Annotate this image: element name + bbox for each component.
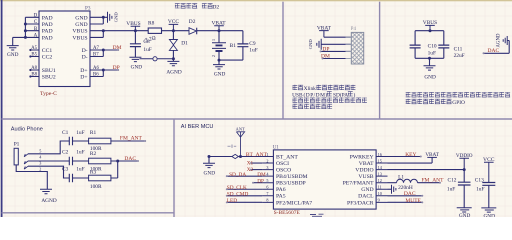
ground GND under C10 C11 xyxy=(424,66,437,81)
svg-text:C1: C1 xyxy=(62,130,69,136)
svg-text:15: 15 xyxy=(378,158,382,163)
svg-text:B1: B1 xyxy=(230,43,237,49)
svg-text:1uF: 1uF xyxy=(76,166,84,172)
svg-text:1uF: 1uF xyxy=(428,50,436,56)
wire P1 pin5 to C1 xyxy=(28,141,69,154)
svg-text:D-: D- xyxy=(82,48,88,54)
svg-text:Type-C: Type-C xyxy=(40,91,57,97)
svg-text:DACL: DACL xyxy=(358,194,374,200)
svg-text:B8: B8 xyxy=(31,73,37,78)
ground GND (rotated, right of P3) xyxy=(108,12,119,23)
svg-text:AI BER MCU: AI BER MCU xyxy=(181,124,214,130)
svg-text:GND: GND xyxy=(131,65,143,71)
svg-text:PAD: PAD xyxy=(42,22,53,28)
capacitor C8 1uF xyxy=(130,31,152,58)
svg-text:C9: C9 xyxy=(249,41,256,47)
capacitor C12 1uF xyxy=(447,170,471,208)
svg-text:VUSB: VUSB xyxy=(358,174,373,180)
svg-text:R8: R8 xyxy=(148,21,155,27)
net label X1 stub xyxy=(247,160,262,166)
svg-text:U1: U1 xyxy=(273,145,280,150)
svg-text:2: 2 xyxy=(266,158,268,163)
svg-text:1uF: 1uF xyxy=(249,47,257,53)
svg-text:(DP/DM): (DP/DM) xyxy=(304,91,328,98)
wire net-tie GND to AGND with circle xyxy=(140,57,174,61)
power port VBAT (pin15) xyxy=(388,152,440,163)
wire VBUS pins of P3 to rail xyxy=(90,31,135,38)
svg-text:C10: C10 xyxy=(428,44,437,50)
svg-text:VBUS: VBUS xyxy=(72,29,87,35)
svg-text:PAD: PAD xyxy=(42,29,53,35)
P3 pin names CC1 CC2 xyxy=(42,48,53,61)
wire P1 pin3 to C3 xyxy=(28,166,69,178)
ferrite bead (diamond) xyxy=(232,154,239,158)
svg-text:C3: C3 xyxy=(62,166,69,172)
ground AGND under D1 xyxy=(166,59,181,76)
bead designator marks xyxy=(228,145,237,148)
svg-text:R2: R2 xyxy=(90,151,97,157)
svg-text:1uF: 1uF xyxy=(143,47,151,53)
connector P3 Type-C body xyxy=(39,11,90,87)
note: battery power isolation annotation xyxy=(406,92,510,106)
power port VBAT (P4) xyxy=(317,25,332,37)
svg-text:7: 7 xyxy=(266,191,268,196)
svg-text:A7: A7 xyxy=(93,46,99,51)
svg-text:11: 11 xyxy=(378,185,382,190)
net label MUTE wire (pin9) xyxy=(388,198,424,204)
ground GND (left of P3) xyxy=(7,46,19,59)
note: battery removal annotation 有电池时 去掉D2 xyxy=(175,3,220,10)
svg-text:LED: LED xyxy=(227,198,237,204)
svg-text:2: 2 xyxy=(39,167,41,172)
capacitor C10 1uF xyxy=(410,44,437,57)
svg-text:SD_CLK: SD_CLK xyxy=(227,185,247,191)
IC U1 body xyxy=(273,150,376,209)
section divider vertical x=379.6 xyxy=(379,2,381,119)
net label DP wire xyxy=(252,178,264,184)
svg-text:X1: X1 xyxy=(247,160,254,166)
svg-text:DAC: DAC xyxy=(404,191,416,197)
svg-text:5: 5 xyxy=(266,178,268,183)
svg-text:Audio Phone: Audio Phone xyxy=(11,126,43,132)
ground AGND (audio) xyxy=(40,189,57,204)
battery B1 xyxy=(211,31,236,60)
net labels SD_DA / DM wire xyxy=(226,172,266,178)
svg-text:S-BE5607E: S-BE5607E xyxy=(274,210,301,216)
svg-text:10: 10 xyxy=(378,191,382,196)
net label FM_ANT wire xyxy=(111,136,146,142)
net label DM (P4) xyxy=(321,54,351,60)
svg-text:PAD: PAD xyxy=(42,35,53,41)
svg-text:FM_ANT: FM_ANT xyxy=(120,136,143,142)
svg-text:Xlink: Xlink xyxy=(304,86,317,92)
svg-text:1uF: 1uF xyxy=(476,186,484,192)
svg-text:22uF: 22uF xyxy=(454,53,465,59)
svg-text:C11: C11 xyxy=(454,47,463,53)
junction dots on PAD bus xyxy=(24,23,27,39)
svg-text:PB3/USBDP: PB3/USBDP xyxy=(276,181,306,187)
cropped text marks at bottom edge xyxy=(310,214,324,216)
wire VBUS rail to VCC to D2 to VBAT xyxy=(135,30,243,32)
section divider vertical x=283 xyxy=(282,2,284,119)
svg-text:VDDIO: VDDIO xyxy=(355,168,373,174)
svg-text:GND: GND xyxy=(75,22,87,28)
svg-text:DM: DM xyxy=(113,45,122,51)
top sheet border xyxy=(0,0,512,1)
wire C10 C11 loop xyxy=(415,31,444,66)
svg-text:BT_ANT: BT_ANT xyxy=(276,154,298,160)
wire GND pins of P3 xyxy=(90,17,108,24)
svg-text:C12: C12 xyxy=(448,178,457,184)
svg-text:DP: DP xyxy=(113,65,120,71)
svg-text:9: 9 xyxy=(378,198,380,203)
svg-text:GND: GND xyxy=(424,74,436,80)
svg-text:B5: B5 xyxy=(31,53,37,58)
antenna ANT xyxy=(236,127,245,157)
svg-text:B7: B7 xyxy=(93,53,99,58)
svg-text:D2: D2 xyxy=(212,5,219,11)
svg-text:GND: GND xyxy=(7,52,19,58)
capacitor C2 1uF xyxy=(62,150,85,166)
svg-text:16: 16 xyxy=(378,152,382,157)
power port VDDIO wire (pin14) xyxy=(388,153,473,171)
left sheet border xyxy=(1,0,3,217)
svg-text:A8: A8 xyxy=(31,66,37,71)
ground GND under battery xyxy=(213,60,226,77)
wire VBAT to P4 pin1 xyxy=(324,36,351,38)
svg-text:GND: GND xyxy=(75,15,87,21)
wire C1-R1, C2-R2, C3-R3 xyxy=(73,141,89,178)
net label DAC wire with R3 join xyxy=(111,156,139,178)
svg-text:GND: GND xyxy=(204,170,216,176)
svg-text:A5: A5 xyxy=(31,46,37,51)
pin A8 B8 stubs SBU1 SBU2 xyxy=(29,66,39,78)
svg-text:GND: GND xyxy=(114,12,119,23)
net label X2 stub xyxy=(247,167,262,173)
svg-text:SD(PA: SD(PA xyxy=(333,91,348,98)
svg-text:PF2/MICL/PA7: PF2/MICL/PA7 xyxy=(276,200,312,206)
capacitor C3 1uF xyxy=(62,166,85,182)
svg-text:D+: D+ xyxy=(80,68,87,74)
power port VBAT xyxy=(211,21,226,31)
svg-text:ANT: ANT xyxy=(236,127,245,132)
power port VBUS (right section) xyxy=(423,20,437,31)
ground GND under C8 xyxy=(129,57,142,70)
diode D2 xyxy=(189,19,197,34)
pin A5 B5 stubs CC1 CC2 xyxy=(29,46,39,58)
audio section bottom border xyxy=(2,212,175,214)
wire PAD bus to ground xyxy=(13,17,39,45)
svg-text:BT_ANT: BT_ANT xyxy=(246,152,268,158)
wire P1 pin4 to C2 xyxy=(28,160,69,162)
svg-text:KEY: KEY xyxy=(405,152,416,158)
svg-text:PF3/DACR: PF3/DACR xyxy=(347,200,374,206)
svg-text:DP: DP xyxy=(257,178,264,184)
svg-text:GPIO: GPIO xyxy=(452,100,465,106)
net label DAC with wire (right edge) xyxy=(483,41,510,55)
svg-text:D+: D+ xyxy=(80,75,87,81)
svg-text:PA5: PA5 xyxy=(276,194,286,200)
svg-text:OSCO: OSCO xyxy=(276,168,291,174)
pin designators D C B A xyxy=(34,14,38,39)
svg-text:GND: GND xyxy=(361,187,373,193)
wire battery bottom loop xyxy=(219,59,243,61)
svg-text:SBU2: SBU2 xyxy=(42,75,56,81)
svg-text:SD_DA: SD_DA xyxy=(229,172,246,178)
diode D1 TVS xyxy=(169,31,188,59)
capacitor C9 1uF xyxy=(237,31,257,60)
svg-text:CC2: CC2 xyxy=(42,55,53,61)
power port VCC with C13 xyxy=(483,157,495,183)
P3 pin names PAD x4 xyxy=(42,15,53,41)
svg-text:P4: P4 xyxy=(351,27,357,32)
P3 pin names GND GND VBUS VBUS xyxy=(72,15,87,41)
svg-text:C13: C13 xyxy=(475,178,484,184)
ground AGND rotated (right edge) xyxy=(497,33,508,47)
ground GND (BT_ANT) xyxy=(203,157,215,177)
U1 left pin names xyxy=(276,154,312,206)
resistor R8 2.2R xyxy=(145,21,162,44)
svg-text:B6: B6 xyxy=(93,73,99,78)
svg-text:12: 12 xyxy=(378,178,382,183)
capacitor C1 1uF xyxy=(62,130,85,145)
svg-text:PWRKEY: PWRKEY xyxy=(350,154,374,160)
P3 pin names D+ D+ xyxy=(80,68,87,81)
svg-text:GND: GND xyxy=(308,39,313,50)
net label DAC wire (pin10) xyxy=(388,191,424,197)
net label LED wire xyxy=(226,198,262,204)
svg-text:VBUS: VBUS xyxy=(72,35,87,41)
svg-text:VBAT: VBAT xyxy=(359,161,374,167)
svg-text:AGND: AGND xyxy=(166,70,181,76)
svg-text:D2: D2 xyxy=(189,19,196,25)
note: Xlink upgrade instructions xyxy=(292,85,367,109)
section divider vertical x=174 xyxy=(173,119,175,217)
svg-text:P1: P1 xyxy=(14,141,20,147)
svg-text:2: 2 xyxy=(211,55,216,57)
connector P4 (hatched) xyxy=(346,27,364,64)
U1 left pin stubs with numbers 1-8 xyxy=(262,152,273,203)
pin A7 B7, net DM xyxy=(90,46,119,58)
svg-text:X2: X2 xyxy=(247,167,254,173)
ground GND under C13 xyxy=(481,208,496,219)
connector P1 audio jack xyxy=(14,141,20,165)
svg-text:MUTE: MUTE xyxy=(405,198,421,204)
capacitor C13 1uF xyxy=(475,178,496,208)
svg-text:PA6: PA6 xyxy=(276,187,286,193)
svg-text:100R: 100R xyxy=(90,184,102,190)
svg-text:PB4/USBDM: PB4/USBDM xyxy=(276,174,308,180)
svg-text:USB: USB xyxy=(292,92,303,98)
svg-text:3: 3 xyxy=(266,165,268,170)
U1 right pin names xyxy=(343,154,375,206)
inductor L1 220nH with FM_ANT xyxy=(388,175,442,191)
svg-text:R1: R1 xyxy=(90,130,97,136)
power port VCC xyxy=(168,19,179,31)
P3 pin names D- D- xyxy=(82,48,88,61)
net label SD_CLK wire xyxy=(226,185,262,191)
resistor R2 100R xyxy=(89,151,111,173)
svg-text:13: 13 xyxy=(378,171,382,176)
P1 contacts xyxy=(24,154,28,169)
svg-text:OSCI: OSCI xyxy=(276,161,289,167)
svg-text:AGND: AGND xyxy=(497,33,502,47)
svg-text:L1: L1 xyxy=(398,175,404,181)
svg-text:): ) xyxy=(354,91,356,98)
svg-text:C2: C2 xyxy=(62,150,69,156)
power port VBUS xyxy=(126,21,140,31)
svg-text:FM_ANT: FM_ANT xyxy=(422,178,445,184)
svg-text:1: 1 xyxy=(211,39,216,41)
svg-text:1uF: 1uF xyxy=(76,150,84,156)
svg-text:SBU1: SBU1 xyxy=(42,68,56,74)
svg-text:AGND: AGND xyxy=(41,198,56,204)
P1 pin numbers 5 4 3 2 xyxy=(39,148,42,171)
svg-text:P3: P3 xyxy=(85,6,91,12)
svg-text:SD_CMD: SD_CMD xyxy=(227,192,249,198)
svg-text:GND: GND xyxy=(459,213,471,217)
capacitor C11 22uF xyxy=(438,45,464,59)
svg-text:PAD: PAD xyxy=(42,15,53,21)
svg-text:PE7/FMANT: PE7/FMANT xyxy=(343,181,374,187)
ground GND under C12 xyxy=(457,208,472,219)
svg-text:D-: D- xyxy=(82,55,88,61)
svg-text:R3: R3 xyxy=(90,169,97,175)
wire BT_ANT net xyxy=(209,156,262,158)
wire P1 pin2 to AGND xyxy=(16,165,47,189)
svg-text:D1: D1 xyxy=(181,41,188,47)
net label DP (P4) xyxy=(320,46,352,52)
svg-text:8: 8 xyxy=(266,198,268,203)
P3 pin names SBU1 SBU2 xyxy=(42,68,56,81)
svg-text:1uF: 1uF xyxy=(76,130,84,136)
net label SD_CMD wire xyxy=(226,192,262,198)
svg-text:DM: DM xyxy=(257,172,266,178)
svg-text:1uF: 1uF xyxy=(447,186,455,192)
resistor R3 100R xyxy=(89,169,111,190)
svg-text:GND: GND xyxy=(214,71,226,77)
ground GND rotated (P4 pin2) xyxy=(308,39,352,50)
pin A6 B6, net DP xyxy=(90,66,119,78)
resistor R1 100R xyxy=(89,130,111,152)
svg-text:CC1: CC1 xyxy=(42,48,53,54)
section divider horizontal y=119 xyxy=(2,118,512,120)
U1 right pin stubs with numbers 16-9 xyxy=(376,152,387,203)
svg-text:DAC: DAC xyxy=(124,156,136,162)
svg-text:6: 6 xyxy=(266,185,268,190)
ground GND (pin11) xyxy=(388,185,396,194)
svg-text:GND: GND xyxy=(483,213,495,217)
svg-text:220nH: 220nH xyxy=(398,185,413,191)
svg-text:A6: A6 xyxy=(93,66,99,71)
net label KEY wire (pin16) xyxy=(388,152,422,158)
svg-text:5: 5 xyxy=(39,148,41,153)
